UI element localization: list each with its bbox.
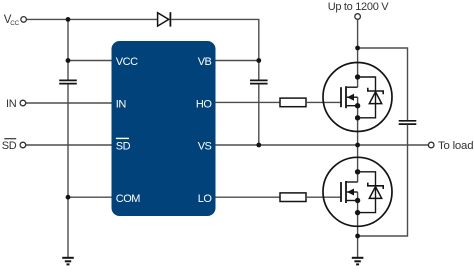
ground symbol left xyxy=(62,258,74,265)
wire Q1 source to VS xyxy=(357,97,359,145)
terminal Vcc xyxy=(4,14,27,27)
wire IN stub xyxy=(26,102,112,104)
diode D1 bootstrap xyxy=(158,12,171,26)
svg-text:IN: IN xyxy=(6,98,17,110)
svg-text:VS: VS xyxy=(198,140,212,152)
wire left rail lower xyxy=(67,84,69,257)
node junction VB xyxy=(256,58,261,63)
svg-text:IN: IN xyxy=(116,99,127,111)
svg-text:COM: COM xyxy=(116,193,141,205)
wire SD stub xyxy=(26,144,112,146)
capacitor C3 DC bus xyxy=(399,121,417,124)
wire VB stub xyxy=(216,60,259,62)
pin label LO xyxy=(198,193,213,205)
node junction source-ground xyxy=(355,234,360,239)
svg-text:HO: HO xyxy=(196,99,212,111)
node junction HV rail xyxy=(355,46,360,51)
terminal SD (with overline) xyxy=(2,139,26,152)
wire R1 to gate xyxy=(306,101,341,103)
pin label VCC xyxy=(116,56,138,68)
svg-text:To load: To load xyxy=(438,140,473,152)
pin label IN xyxy=(116,99,127,111)
wire Q1 drain xyxy=(357,48,359,87)
pin label COM xyxy=(116,193,141,205)
resistor R1 high-side gate xyxy=(280,98,306,107)
wire Vcc rail top xyxy=(27,18,158,20)
svg-text:CC: CC xyxy=(10,20,19,27)
wire Q2 drain xyxy=(357,145,359,182)
wire bus cap lower lead xyxy=(358,125,408,236)
wire HO stub xyxy=(216,101,281,103)
capacitor C2 bootstrap xyxy=(250,80,268,83)
transistor Q1 high-side MOSFET xyxy=(323,63,392,132)
resistor R2 low-side gate xyxy=(280,193,306,202)
wire COM stub xyxy=(68,196,112,198)
terminal HV Up to 1200 V xyxy=(328,1,390,19)
ground symbol right xyxy=(352,258,364,265)
node junction VCC pin xyxy=(66,58,71,63)
capacitor C1 Vcc decoupling xyxy=(59,80,77,83)
pin label VB xyxy=(198,56,212,68)
svg-text:Up to 1200 V: Up to 1200 V xyxy=(328,1,390,13)
pin label SD (with overline) xyxy=(116,138,131,152)
wire HV branch to bus cap xyxy=(358,48,408,120)
node junction VS-bootstrap xyxy=(256,143,261,148)
pin label VS xyxy=(198,140,212,152)
op IC gate driver body xyxy=(112,41,216,216)
wire R2 to gate xyxy=(306,196,341,198)
wire bootstrap cap lower lead xyxy=(258,84,260,145)
wire VCC pin stub xyxy=(68,60,112,62)
wire Q2 source xyxy=(357,192,359,236)
wire ground stem right xyxy=(357,236,359,257)
wire bootstrap cap upper lead xyxy=(258,61,260,80)
wire VS line xyxy=(216,144,429,146)
svg-text:VB: VB xyxy=(198,56,212,68)
wire LO stub xyxy=(216,196,281,198)
svg-text:SD: SD xyxy=(2,140,17,152)
transistor Q2 low-side MOSFET xyxy=(323,157,392,226)
node junction COM xyxy=(66,195,71,200)
svg-text:VCC: VCC xyxy=(116,56,138,68)
terminal To load xyxy=(428,140,473,152)
terminal IN xyxy=(6,98,26,110)
wire HV terminal drop xyxy=(357,19,359,48)
pin label HO xyxy=(196,99,212,111)
svg-text:LO: LO xyxy=(198,193,213,205)
node junction Vcc rail xyxy=(66,17,71,22)
wire diode to VB node xyxy=(171,19,258,60)
wire left rail upper xyxy=(67,19,69,80)
svg-text:SD: SD xyxy=(116,140,131,152)
node junction VS-switch xyxy=(355,143,360,148)
